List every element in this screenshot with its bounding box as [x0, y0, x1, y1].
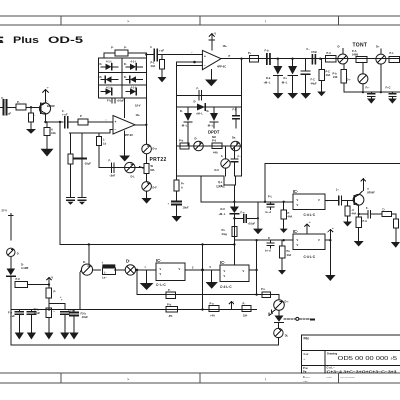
svg-text:P·w: P·w	[303, 366, 309, 370]
wire to op-amp U1	[88, 121, 113, 123]
svg-text:D·: D·	[21, 262, 24, 266]
svg-text:Q·L: Q·L	[218, 180, 223, 184]
svg-text:P·L: P·L	[390, 51, 395, 55]
vertical x256	[256, 240, 258, 294]
svg-text:L·: L·	[104, 271, 107, 275]
resistor R17	[279, 240, 291, 270]
svg-text:P.·: P.·	[243, 302, 246, 306]
diode D7	[194, 100, 206, 116]
svg-text:44A: 44A	[326, 73, 331, 77]
svg-text:V: V	[297, 198, 299, 202]
diode D18 chain x234	[219, 207, 239, 265]
pot D22 DL	[274, 322, 289, 345]
svg-text:P·L: P·L	[268, 195, 273, 199]
sheet border top band	[0, 16, 400, 25]
svg-text:·›: ·›	[304, 357, 306, 361]
svg-text:OD-5: OD-5	[48, 35, 83, 45]
pot D-f	[142, 173, 157, 191]
ground stub on row A	[257, 202, 259, 229]
svg-text:L·: L·	[103, 138, 106, 142]
svg-text:·: ·	[365, 177, 366, 180]
svg-text:▢·: ▢·	[382, 208, 385, 211]
IC box A	[293, 189, 325, 217]
svg-text:+: +	[115, 120, 117, 124]
svg-text:+·: +·	[47, 87, 50, 90]
svg-text:P·C: P·C	[16, 277, 21, 281]
svg-text:44A: 44A	[352, 212, 357, 216]
svg-text:V: V	[297, 238, 299, 242]
ground	[280, 229, 288, 233]
svg-text:×: ×	[145, 265, 147, 269]
resistor R4	[78, 114, 88, 125]
capacitor under diode box	[107, 98, 124, 103]
capacitor C13	[265, 240, 274, 252]
svg-text:D·: D·	[126, 259, 130, 264]
resistor R14 vertical	[333, 64, 347, 92]
svg-text:·V: ·V	[214, 32, 217, 36]
diode D13 to ground	[264, 59, 283, 93]
svg-text:·M··L: ·M··L	[207, 124, 214, 128]
node base Q1	[30, 106, 32, 108]
wire pot to switch	[93, 269, 101, 271]
pot D16 on wire	[376, 45, 386, 65]
arrow on rail	[229, 301, 234, 310]
title block	[302, 335, 400, 383]
resistor R11	[352, 49, 367, 62]
svg-text:P·0: P·0	[212, 139, 217, 143]
svg-text:··›···: ··›···	[303, 379, 308, 383]
ground under R2	[26, 129, 36, 134]
svg-text:44uF: 44uF	[311, 82, 317, 86]
svg-text:+·uF: +·uF	[62, 113, 68, 117]
svg-text:F·b: F·b	[107, 99, 111, 103]
svg-text:4·1MF: 4·1MF	[21, 266, 29, 270]
LED D21	[269, 310, 314, 322]
svg-text:Plus: Plus	[13, 35, 39, 45]
wire x146 column	[145, 53, 147, 144]
svg-text:V: V	[224, 274, 226, 278]
pot D11	[231, 136, 241, 151]
svg-text:\: \	[265, 19, 267, 24]
svg-text:·M··L: ·M··L	[281, 81, 288, 85]
long wire x60 down	[59, 122, 61, 245]
svg-text:P·: P·	[54, 290, 57, 294]
svg-text:D·: D·	[124, 62, 127, 66]
svg-text:240B: 240B	[352, 53, 358, 57]
resistor R20	[382, 208, 396, 217]
svg-text:44A: 44A	[213, 151, 218, 155]
resistor R29 to ground after cap	[151, 55, 165, 77]
svg-text:IC·: IC·	[293, 189, 299, 194]
pot D15 on wire	[338, 45, 348, 65]
lamp D23	[7, 248, 19, 256]
pot D17 vertical	[347, 62, 368, 92]
trimmer P1 branch	[68, 133, 91, 198]
svg-text:··uF: ··uF	[10, 314, 15, 318]
svg-text:P+: P+	[248, 51, 252, 55]
svg-text:4PP·0C: 4PP·0C	[124, 133, 133, 137]
svg-text:TONT: TONT	[353, 43, 368, 49]
capacitor C2	[62, 109, 68, 128]
svg-text:DPDT: DPDT	[208, 130, 220, 135]
svg-text:>: >	[127, 19, 130, 24]
svg-text:F·b: F·b	[8, 311, 12, 315]
svg-text:NO: NO	[212, 135, 216, 139]
resistor R30 below DPDT box	[174, 176, 185, 202]
supply entry stub	[9, 214, 14, 240]
svg-text:F+C: F+C	[386, 86, 391, 90]
svg-text:V: V	[243, 269, 245, 273]
svg-text:F·: F·	[366, 206, 369, 210]
supply arrow IC box B	[305, 221, 311, 234]
node emitter Q2	[358, 213, 360, 215]
svg-text:V: V	[318, 198, 320, 202]
wire to tone row	[99, 167, 144, 169]
svg-text:D·: D·	[195, 137, 198, 141]
svg-text:b+·d: b+·d	[266, 210, 272, 214]
wire y92	[344, 91, 400, 93]
resistor R21 vertical	[393, 214, 398, 242]
svg-text:Da: Da	[232, 136, 236, 140]
left edge wire down	[10, 285, 12, 345]
svg-text:+10uF: +10uF	[248, 222, 256, 226]
diode D4	[124, 75, 143, 83]
resistor R9	[248, 51, 259, 62]
diode D2	[124, 60, 143, 71]
ground stem	[140, 270, 154, 290]
wire	[26, 106, 40, 108]
svg-text:b+·d: b+·d	[265, 249, 271, 253]
ground under pot column	[142, 191, 152, 203]
svg-text:V: V	[179, 267, 181, 271]
bottom long wire y345	[11, 344, 279, 346]
resistor R22	[166, 288, 175, 298]
svg-text:2: 2	[192, 266, 194, 270]
svg-text:+: +	[204, 55, 206, 59]
svg-text:C······: C······	[303, 375, 310, 379]
capacitor C17	[61, 309, 74, 333]
svg-text:D·F: D·F	[153, 186, 158, 190]
pot D#	[125, 259, 135, 276]
svg-text:·V: ·V	[51, 276, 54, 280]
wire diode chain x234	[233, 185, 235, 207]
capacitor x234 lower	[231, 146, 241, 176]
wire emitter to C2	[46, 121, 64, 123]
svg-text:D+: D+	[376, 45, 380, 49]
svg-text:P·b: P·b	[167, 303, 172, 307]
svg-text:D·: D·	[83, 260, 86, 264]
svg-text:P·: P·	[111, 46, 114, 50]
svg-text:1M·: 1M·	[243, 314, 248, 318]
DPDT box left edge	[176, 62, 178, 176]
svg-text:A: A	[51, 128, 53, 132]
svg-text:D·L: D·L	[131, 175, 136, 179]
svg-text:P: P	[229, 54, 231, 58]
ground	[354, 241, 364, 247]
svg-text:File: File	[304, 336, 310, 340]
svg-text:+: +	[61, 299, 63, 302]
svg-text:5: 5	[210, 265, 212, 269]
svg-text:F··: F··	[307, 47, 310, 51]
svg-text:›: ›	[106, 118, 107, 122]
divider mid tap wire	[49, 298, 65, 310]
svg-text:P.L: P.L	[287, 249, 291, 253]
node	[319, 58, 321, 60]
DPDT box bottom with tab	[177, 175, 224, 177]
IC box A output chain	[325, 188, 353, 205]
ground	[253, 229, 263, 235]
capacitor C6 series	[265, 49, 271, 66]
svg-text:F··: F··	[238, 155, 241, 159]
capacitor C19 electrolytic	[168, 202, 189, 217]
ground	[278, 270, 286, 275]
svg-text:+·: +·	[332, 227, 335, 230]
svg-text:Pa·: Pa·	[303, 370, 307, 374]
resistor R26 divider bottom	[46, 308, 55, 333]
svg-text:P·C: P·C	[326, 70, 331, 74]
svg-text:D·: D·	[180, 109, 183, 113]
svg-text:Drawing: Drawing	[327, 352, 338, 356]
diode D9 vertical	[207, 107, 219, 128]
pot D12	[215, 146, 231, 176]
capacitor on x200	[197, 87, 202, 101]
svg-text:D·C: D·C	[221, 207, 226, 211]
svg-text:C··L·C: C··L·C	[156, 283, 166, 287]
pot D+a	[142, 144, 157, 154]
op-amp U2	[202, 44, 230, 70]
capacitor C12	[266, 202, 274, 214]
ground stem 2	[206, 270, 218, 289]
diode D14 to ground	[281, 59, 297, 93]
svg-text:D·: D·	[194, 100, 197, 104]
diode D8 vertical	[180, 107, 192, 146]
svg-text:A: A	[181, 186, 183, 190]
output chain wire y58.7	[221, 58, 400, 60]
ground stem U1	[119, 131, 130, 162]
row wire y107	[177, 106, 242, 108]
IC1 box	[156, 258, 185, 287]
svg-text:F2·b: F2·b	[81, 312, 87, 316]
resistor R19 emitter	[356, 217, 367, 241]
svg-text:◊: ◊	[102, 262, 104, 265]
svg-text:·C: ·C	[352, 208, 355, 212]
IC box B row wire	[234, 239, 293, 241]
svg-text:[·›: [·›	[336, 188, 339, 192]
ground under R3	[41, 149, 54, 157]
svg-text:P·b: P·b	[333, 72, 338, 76]
svg-text:V: V	[160, 267, 162, 271]
wire	[6, 106, 16, 108]
ground	[325, 275, 336, 281]
node	[136, 269, 139, 272]
supply rail y309	[11, 309, 257, 311]
svg-text:−: −	[204, 64, 206, 68]
svg-text:8F04F: 8F04F	[367, 191, 375, 195]
svg-text:P·: P·	[124, 46, 127, 50]
node feedback tap	[59, 121, 61, 123]
svg-text:C·4·L·C: C·4·L·C	[220, 285, 232, 289]
svg-text:P.: P.	[268, 236, 270, 240]
ground under R29	[158, 77, 167, 82]
resistor R3 1k	[44, 122, 56, 149]
svg-text:\: \	[265, 377, 267, 382]
svg-text:Lb: Lb	[103, 142, 107, 146]
svg-text:+M··L: +M··L	[219, 212, 226, 216]
footswitch S1	[102, 262, 116, 280]
svg-text:F·a: F·a	[241, 211, 245, 215]
svg-text:La··: La··	[102, 276, 107, 280]
svg-text:F·: F·	[2, 96, 5, 100]
svg-text:F+·: F+·	[366, 86, 370, 90]
diode D6	[126, 86, 137, 95]
svg-text:V: V	[297, 243, 299, 247]
svg-text:D·b: D·b	[266, 76, 271, 80]
svg-text:10uF: 10uF	[183, 206, 189, 210]
svg-text:·uF: ·uF	[7, 112, 11, 116]
svg-text:D·: D·	[338, 45, 341, 49]
svg-text:47nF: 47nF	[311, 50, 317, 54]
clipping diode box outline	[98, 58, 146, 98]
svg-text:F·: F·	[109, 159, 112, 163]
resistor R5 branch x99	[96, 133, 106, 168]
wire IC box A row	[201, 201, 293, 203]
svg-text:IC·: IC·	[156, 258, 162, 263]
svg-text:P·: P·	[288, 211, 291, 215]
capacitor C7 to ground	[301, 59, 317, 93]
pot D20	[274, 295, 289, 311]
svg-text:V: V	[224, 269, 226, 273]
svg-text:P·: P·	[17, 100, 20, 104]
capacitor C4 on row	[109, 159, 116, 178]
ground	[44, 333, 53, 340]
wire	[68, 121, 78, 123]
capacitor C10 to ground	[386, 86, 397, 104]
long wire y163	[265, 164, 400, 202]
IC box B	[293, 229, 325, 259]
svg-text:D+·: D+·	[347, 78, 351, 82]
IC2 box	[220, 260, 249, 289]
resistor R8	[212, 139, 222, 155]
U2 ground stem	[205, 70, 218, 87]
svg-text:·: ·	[233, 301, 234, 304]
svg-text:+4A: +4A	[210, 314, 215, 318]
svg-text:P·A: P·A	[363, 219, 368, 223]
ground under C19	[172, 216, 182, 222]
U2 supply arrow	[209, 32, 216, 51]
svg-text:P·A: P·A	[352, 49, 357, 53]
resistor R31 on rail	[166, 303, 178, 319]
svg-text:W: W	[151, 164, 154, 168]
svg-text:PRT22: PRT22	[150, 157, 167, 163]
svg-text:4·1·L: 4·1·L	[106, 60, 113, 64]
resistor R7	[179, 139, 189, 150]
capacitor C16	[27, 308, 40, 333]
svg-text:4·1·L: 4·1·L	[106, 86, 113, 90]
svg-text:D·a: D·a	[153, 147, 158, 151]
svg-text:44A: 44A	[151, 64, 156, 68]
capacitor C8 series	[307, 47, 318, 65]
wire	[115, 269, 126, 271]
resistor R6 above diode box	[104, 46, 146, 59]
diode D1	[100, 60, 119, 71]
pot D10	[194, 137, 204, 151]
resistor R12	[389, 51, 400, 62]
svg-text:C+3−4.3+C−3+O+C+3−C−3+3: C+3−4.3+C−3+O+C+3−C−3+3	[327, 370, 397, 374]
svg-text:LPAC: LPAC	[217, 185, 226, 189]
pot D-L on row	[125, 162, 136, 178]
svg-text:P·A: P·A	[327, 51, 332, 55]
node	[291, 58, 293, 60]
supply arrow Q2	[361, 177, 366, 191]
svg-text:D·: D·	[124, 75, 127, 79]
svg-text:›: ›	[35, 113, 36, 117]
pot D19 bottom left	[81, 245, 92, 276]
DPDT box right edge	[241, 59, 243, 176]
svg-text:27·V: 27·V	[2, 209, 8, 213]
svg-text:18·›: 18·›	[223, 44, 228, 48]
svg-text:F·C: F·C	[311, 78, 315, 82]
diode D5	[101, 86, 113, 95]
svg-text:C·w: C·w	[304, 352, 310, 356]
ground	[317, 92, 326, 97]
svg-text:+·: +·	[309, 221, 312, 224]
svg-text:47uF: 47uF	[34, 311, 40, 315]
svg-text:+: +	[168, 203, 170, 206]
svg-text:DL: DL	[285, 334, 289, 338]
long wire y294	[137, 294, 279, 296]
svg-text:44A: 44A	[287, 253, 292, 257]
svg-text:+M··L: +M··L	[264, 81, 271, 85]
svg-text:F·b: F·b	[265, 49, 269, 53]
ground	[391, 242, 400, 248]
capacitor C15	[8, 310, 23, 333]
capacitor C11	[234, 211, 259, 226]
sheet border bottom band	[0, 373, 400, 383]
svg-text:F·: F·	[62, 109, 65, 113]
resistor R27 on rail	[209, 302, 219, 318]
svg-text:P·a: P·a	[210, 302, 215, 306]
zener D24	[7, 257, 29, 285]
svg-text:D+·: D+·	[285, 300, 289, 304]
op-amp U1	[113, 113, 140, 137]
ground	[288, 93, 299, 99]
svg-text:Λ: Λ	[150, 45, 152, 49]
svg-text:a: a	[367, 188, 369, 191]
capacitor C18	[70, 310, 88, 333]
node	[277, 58, 279, 60]
svg-text:>: >	[127, 377, 130, 382]
svg-text:F·b: F·b	[233, 108, 237, 112]
trimmer PRT22	[140, 154, 155, 174]
wire down from node	[136, 270, 138, 295]
svg-text:C·4·L·C: C·4·L·C	[304, 255, 316, 259]
svg-text:4·1·L: 4·1·L	[131, 86, 138, 90]
capacitor C5 47uF series	[146, 45, 202, 61]
svg-text:18·›: 18·›	[136, 113, 141, 117]
svg-text:P·: P·	[168, 288, 171, 292]
svg-text:P: P	[80, 114, 82, 118]
svg-text:F·: F·	[197, 87, 200, 91]
svg-text:P·L: P·L	[261, 287, 266, 291]
capacitor C9 to ground	[366, 86, 376, 104]
svg-text:240: 240	[333, 75, 338, 79]
node emitter	[44, 121, 46, 123]
svg-text:44A: 44A	[288, 215, 293, 219]
wire IC2 out	[249, 269, 257, 271]
svg-text:4·1·L: 4·1·L	[131, 60, 138, 64]
svg-text:P+: P+	[181, 182, 185, 186]
ground	[273, 93, 284, 99]
